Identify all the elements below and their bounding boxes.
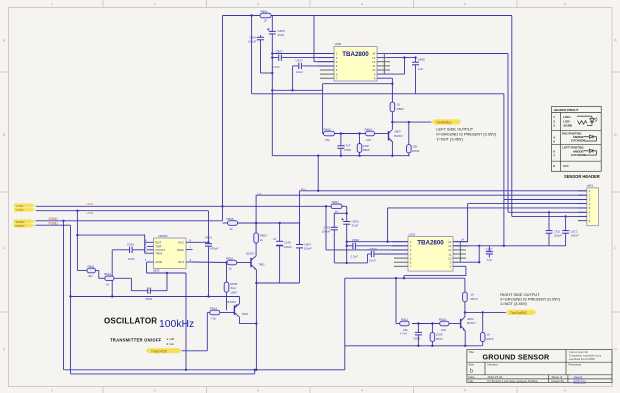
wire C818 row: [131, 290, 147, 292]
wire C813 column: [208, 242, 210, 243]
svg-text:NE555: NE555: [158, 234, 168, 238]
capacitor C815: [130, 247, 133, 253]
wire PGND rail: [36, 224, 71, 226]
resistor R810 inline on OUT: [226, 256, 237, 270]
svg-text:u802: u802: [409, 232, 416, 236]
pins U800 5-7 ground stubs: [320, 70, 334, 78]
svg-text:Lrt-: Lrt-: [258, 192, 263, 196]
svg-text:7.5k: 7.5k: [210, 317, 216, 321]
svg-text:1k: 1k: [229, 267, 233, 271]
svg-text:2: 2: [154, 388, 156, 392]
port PGND yellow flag: [14, 224, 36, 228]
wire bus1 drop to caps: [299, 191, 301, 245]
net label TxIsByOnL (yellow pill): [432, 119, 462, 124]
svg-text:4: 4: [361, 388, 363, 392]
svg-text:R802: R802: [397, 107, 405, 111]
svg-text:C819: C819: [370, 247, 378, 251]
svg-text:u800: u800: [335, 42, 342, 46]
pins U800 right: [377, 54, 405, 79]
svg-text:R810: R810: [226, 256, 234, 260]
svg-text:0 =on: 0 =on: [167, 342, 175, 346]
pins U802 right gnd stubs: [453, 242, 466, 263]
wire T801 emitter down: [255, 270, 257, 370]
wire R805 row: [223, 222, 228, 224]
wire header pin6 net: [507, 54, 509, 213]
wire C1401 column: [279, 223, 281, 241]
svg-text:autodised levone.BMP: autodised levone.BMP: [569, 357, 595, 361]
svg-text:100uF: 100uF: [248, 40, 257, 44]
pins U802 left: [392, 242, 408, 254]
svg-text:3: 3: [257, 388, 259, 392]
capacitor C817b: [486, 252, 493, 254]
wire chip2 pin2 net through C810: [347, 245, 353, 247]
wire output node right: [465, 311, 506, 313]
wire top row right block: [345, 277, 465, 279]
svg-text:C: C: [3, 246, 6, 250]
svg-text:Lrt+: Lrt+: [301, 187, 307, 191]
wire T802 emitter up: [239, 297, 241, 304]
resistor R804: [365, 127, 375, 141]
transistor Q801 BC817: [389, 130, 393, 142]
capacitor C819 series pin4: [371, 251, 374, 257]
svg-text:470pF: 470pF: [210, 247, 219, 251]
svg-text:HEADER PINOUT: HEADER PINOUT: [554, 108, 579, 112]
svg-text:andy irvin: andy irvin: [574, 379, 587, 383]
wire bus2 drop to oscillator: [255, 195, 257, 233]
svg-text:R804: R804: [365, 127, 373, 131]
svg-text:2: 2: [154, 2, 156, 6]
svg-text:DISC: DISC: [177, 248, 185, 252]
svg-text:R805: R805: [363, 148, 370, 152]
svg-text:1: 1: [51, 2, 53, 6]
svg-text:GND: GND: [155, 260, 163, 264]
svg-text:OUT: OUT: [178, 260, 185, 264]
svg-text:R809: R809: [260, 234, 268, 238]
pins U801: [578, 191, 587, 217]
wire C811 hang: [548, 212, 550, 230]
resistor R816b: [439, 317, 449, 331]
wire R815 column from output node: [482, 312, 484, 332]
pins U802 right: [453, 242, 468, 267]
wire C810b column: [299, 223, 301, 244]
wire ground line A: [272, 89, 322, 91]
wire bottom row right block: [345, 345, 483, 347]
svg-text:Cannot open file: Cannot open file: [569, 350, 588, 354]
svg-text:5: 5: [464, 2, 466, 6]
wire bottom rail 1: [64, 369, 345, 371]
svg-text:1 =off: 1 =off: [167, 337, 175, 341]
svg-text:1k: 1k: [106, 283, 110, 287]
wire VCC from +7Vp: [193, 241, 209, 243]
resistor R805b inline: [227, 217, 238, 231]
wire OUT to base: [193, 261, 227, 264]
resistor R802: [390, 102, 404, 112]
svg-text:TBA2800: TBA2800: [342, 51, 369, 58]
transistor Q802 BC817: [461, 317, 466, 331]
capacitor C819b: [415, 332, 422, 335]
pin numbers U801: [589, 189, 591, 223]
capacitor C810b: [296, 245, 303, 248]
wire chip1 pin1 net: [272, 53, 334, 55]
capacitor C809: [337, 146, 344, 149]
svg-text:C810: C810: [352, 238, 360, 242]
pin numbers U800: [336, 52, 338, 81]
annotation RIGHT SIDE OUTPUT: [500, 292, 560, 306]
wire chip1 pin13-pin9 tie: [404, 58, 406, 75]
wire RST/THR/CVOLT/TRIG tie: [145, 241, 147, 243]
transistor T801 BC817: [251, 256, 256, 270]
svg-text:Drawn By:: Drawn By:: [552, 379, 566, 383]
svg-text:SGND: SGND: [49, 217, 59, 221]
svg-text:10: 10: [335, 209, 339, 213]
junction dots right block: [254, 205, 505, 371]
svg-text:6: 6: [564, 2, 566, 6]
svg-text:1K: 1K: [397, 102, 401, 106]
wire emitter down: [391, 142, 393, 156]
capacitor C1401 polarized: [274, 239, 284, 246]
wire SGND down: [63, 221, 65, 370]
svg-text:100K: 100K: [230, 290, 237, 294]
wire bus line Lrt+ to header pin1: [300, 190, 587, 192]
svg-text:u805: u805: [153, 269, 160, 273]
svg-text:u801: u801: [587, 184, 594, 188]
svg-text:220uF: 220uF: [284, 245, 292, 249]
resistor R806: [407, 145, 420, 153]
annotation LEFT SIDE OUTPUT: [436, 126, 496, 141]
svg-text:C813: C813: [205, 236, 213, 240]
svg-text:C818: C818: [145, 297, 153, 301]
photodiode symbol LEFT: [584, 149, 597, 155]
svg-text:Number: Number: [488, 363, 498, 367]
svg-text:R817: R817: [436, 337, 443, 341]
wire emitter down: [464, 331, 466, 346]
wire R802 pull branch: [391, 84, 393, 102]
wire R807 feed: [342, 205, 347, 207]
wire R806 column from output node: [408, 122, 410, 145]
resistor R809: [254, 233, 267, 243]
junction dots oscillator: [62, 205, 280, 371]
svg-text:TxIsRdByL: TxIsRdByL: [436, 121, 452, 125]
svg-text:C815: C815: [127, 243, 135, 247]
wire ground row 296.5: [71, 296, 240, 298]
svg-text:+7Vp: +7Vp: [86, 211, 94, 215]
resistor R801: [260, 10, 271, 23]
svg-text:C: C: [614, 246, 617, 250]
svg-text:T801: T801: [258, 262, 265, 266]
svg-text:R816: R816: [439, 317, 447, 321]
wire chip2 pin1 net: [347, 241, 408, 243]
capacitor C813: [205, 244, 212, 247]
svg-text:BC817: BC817: [394, 134, 403, 138]
wire chip1 pin3 from rail: [313, 16, 315, 62]
wire C805 column: [271, 16, 273, 32]
wire +7Vs rail: [36, 205, 331, 207]
svg-text:15k: 15k: [325, 138, 330, 142]
wire bus line Lrt- to header pin2: [256, 194, 587, 196]
svg-text:CATHODE: CATHODE: [571, 139, 586, 143]
svg-text:BC817: BC817: [246, 252, 255, 256]
connector U801 sensor header: [587, 184, 599, 226]
svg-text:6: 6: [564, 388, 566, 392]
svg-text:R801: R801: [261, 10, 269, 14]
wire C817 hang: [488, 246, 490, 252]
svg-text:N.C.: N.C.: [563, 164, 569, 168]
wire pin3 feed from +7Vs: [325, 206, 327, 250]
svg-text:2.2nF: 2.2nF: [272, 65, 280, 69]
resistor R811: [87, 265, 96, 279]
svg-text:C808: C808: [418, 57, 426, 61]
wire R805 hang: [359, 134, 361, 144]
capacitor C803 polarized: [341, 218, 350, 224]
wire left output node: [392, 121, 431, 123]
wire chip1 pin14 output to header: [392, 53, 508, 55]
wire gnd row chip2: [334, 262, 367, 264]
port +7Vp yellow flag: [14, 208, 36, 212]
svg-text:R807: R807: [332, 200, 340, 204]
svg-text:Title: Title: [469, 350, 475, 354]
svg-text:14: 14: [461, 237, 465, 241]
svg-text:1=NOT (3.45V): 1=NOT (3.45V): [436, 137, 463, 142]
svg-text:100nF: 100nF: [304, 247, 312, 251]
svg-text:4: 4: [361, 2, 363, 6]
svg-text:OSCILLATOR: OSCILLATOR: [104, 317, 157, 326]
svg-text:CATHODE: CATHODE: [571, 153, 586, 157]
svg-text:100kHz: 100kHz: [159, 319, 194, 330]
capacitor C811: [546, 231, 553, 234]
wire R814 row: [207, 312, 210, 314]
svg-text:1k8: 1k8: [441, 328, 446, 332]
junction dots top section: [250, 14, 416, 157]
port SGND yellow flag: [14, 219, 36, 223]
wire base row right block: [396, 323, 402, 325]
pins U805: [147, 242, 193, 262]
wire C812 hang: [565, 216, 567, 230]
svg-text:R805: R805: [227, 217, 235, 221]
svg-text:T802: T802: [242, 312, 249, 316]
pin names U805: [155, 241, 165, 265]
wire chip2 pin8 route: [465, 266, 467, 275]
wire C803 column: [346, 225, 348, 263]
svg-text:2.2nF: 2.2nF: [350, 255, 358, 259]
wires around U805: [71, 211, 301, 370]
svg-text:C819: C819: [413, 336, 420, 340]
resistor R805: [357, 144, 370, 153]
svg-text:10nF: 10nF: [369, 258, 376, 262]
svg-text:R803: R803: [324, 127, 332, 131]
svg-text:C807: C807: [276, 50, 284, 54]
transistor T802 BC807: [234, 304, 239, 318]
wire chip1 pin13 to C808: [392, 57, 416, 59]
svg-text:SENSOR HEADER: SENSOR HEADER: [564, 174, 600, 179]
svg-text:1nF: 1nF: [418, 67, 423, 71]
svg-text:D: D: [3, 348, 6, 352]
svg-text:b: b: [470, 369, 473, 375]
resistor R815: [480, 332, 493, 341]
svg-text:10nF: 10nF: [128, 257, 135, 261]
svg-text:100uF: 100uF: [322, 230, 331, 234]
svg-text:BC817: BC817: [467, 321, 476, 325]
net label TxIsOutRtG yellow pill: [506, 310, 537, 315]
resistor R811: [400, 317, 410, 331]
wire header pin7 net: [511, 16, 513, 217]
wire R809 column: [255, 223, 257, 233]
wire top power rail: [223, 15, 261, 17]
svg-text:1=NOT (3.45V): 1=NOT (3.45V): [500, 301, 527, 306]
resistor R808: [224, 282, 237, 294]
resistor R812: [104, 272, 114, 286]
svg-text:33uF: 33uF: [352, 224, 359, 228]
svg-text:1uF: 1uF: [487, 258, 492, 262]
wire T802 collector link: [239, 317, 241, 323]
svg-text:+7Vs: +7Vs: [86, 202, 94, 206]
svg-text:SGND: SGND: [563, 124, 573, 128]
svg-text:R806: R806: [412, 149, 419, 153]
svg-text:C817: C817: [486, 247, 494, 251]
svg-text:TxIsOutRtG: TxIsOutRtG: [510, 311, 527, 315]
svg-text:VCC: VCC: [178, 241, 185, 245]
pin 8 NC stub: [578, 220, 587, 222]
wire output drop to bus: [317, 156, 319, 191]
wire vertical into filter: [251, 16, 253, 94]
junction dots bus: [317, 190, 567, 218]
wire C815 feed column: [111, 250, 113, 297]
svg-text:D:\Temp\2.1 coil relay replaye: D:\Temp\2.1 coil relay replayen 5ch2ba: [488, 379, 538, 383]
wire chip1 pin8 route: [391, 78, 393, 84]
resistor R807: [331, 200, 342, 213]
svg-text:PGND: PGND: [49, 221, 59, 225]
wire chip2 pin13 long ground net: [453, 245, 566, 247]
wire chip2 pin14: [453, 241, 468, 243]
wire chip1 pin4 (through C817): [293, 65, 299, 67]
capacitor C805: [267, 28, 276, 34]
timer U805 NE555: [153, 234, 186, 273]
capacitor C818: [148, 288, 151, 294]
svg-text:Size: Size: [469, 363, 475, 367]
wire pill TxByOnOff link: [182, 350, 208, 352]
photodiode symbol RIG: [584, 135, 597, 141]
wire +7Vp branch to RST: [76, 211, 78, 271]
capacitor C806 series pin2: [279, 55, 282, 61]
svg-text:TxByOnOff: TxByOnOff: [151, 349, 167, 353]
wire right block left edge: [344, 278, 346, 370]
wire C815 link: [112, 249, 129, 251]
wire chip1 pin2 net (through C806): [272, 57, 278, 59]
svg-text:1: 1: [51, 388, 53, 392]
pins U802 5-7 ground stubs: [394, 258, 408, 266]
svg-text:3k2: 3k2: [88, 274, 93, 278]
svg-text:100nF: 100nF: [570, 234, 578, 238]
wire C809 hang: [340, 134, 342, 146]
svg-text:Revisions: Revisions: [569, 363, 582, 367]
svg-text:1k: 1k: [260, 238, 264, 242]
svg-text:D: D: [614, 348, 617, 352]
resistor R803: [324, 127, 335, 141]
wire C804 column: [260, 35, 262, 37]
pins U800 left: [318, 54, 334, 66]
wire left long spine: [222, 16, 224, 221]
svg-text:R812: R812: [104, 272, 112, 276]
wire GND drop: [146, 262, 148, 273]
wire pin9 tie: [468, 261, 479, 263]
svg-text:R811: R811: [401, 317, 408, 321]
svg-text:5: 5: [464, 388, 466, 392]
svg-text:R815: R815: [486, 337, 493, 341]
wire R811 row: [77, 270, 87, 272]
svg-text:LED+: LED+: [563, 115, 571, 119]
pin numbers U805: [145, 238, 192, 262]
capacitor C817 series pin4: [299, 63, 302, 69]
svg-text:1K: 1K: [470, 292, 474, 296]
svg-text:TRIG: TRIG: [155, 251, 163, 255]
capacitor C810 series pin2: [353, 243, 356, 249]
wire header pin3 net: [503, 94, 505, 246]
pins U800 right gnd stubs: [377, 54, 390, 75]
wire R817 hang: [431, 324, 433, 333]
svg-text:1k: 1k: [230, 227, 234, 231]
wire SGND rail: [36, 220, 223, 222]
svg-text:4.7nF: 4.7nF: [343, 143, 351, 147]
svg-text:10nF: 10nF: [296, 70, 303, 74]
wire bottom rail 2: [71, 373, 255, 375]
resistor R817: [430, 332, 443, 341]
port TxByOnOff yellow pill: [146, 348, 182, 353]
LED symbol in table: [577, 116, 598, 125]
blue links in title block: [574, 375, 587, 383]
capacitor C804: [257, 37, 264, 40]
resistor R814: [210, 306, 220, 320]
svg-text:10: 10: [264, 19, 268, 23]
svg-text:GROUND SENSOR: GROUND SENSOR: [483, 352, 551, 361]
svg-text:3: 3: [257, 2, 259, 6]
wire gnd row 283: [256, 282, 299, 284]
svg-text:R811: R811: [88, 265, 95, 269]
svg-text:33uF: 33uF: [278, 33, 285, 37]
wire bottom row left block: [272, 155, 410, 157]
wire ground line B: [252, 93, 504, 95]
svg-text:+7Vp: +7Vp: [16, 208, 24, 212]
op-amp U800 TBA2800: [334, 42, 377, 81]
wire base row left block: [322, 133, 325, 135]
svg-text:C809: C809: [344, 148, 351, 152]
wire C802 branch: [334, 212, 346, 214]
svg-text:4.7nF: 4.7nF: [400, 331, 408, 335]
svg-text:1k8: 1k8: [366, 138, 371, 142]
svg-text:C817: C817: [296, 58, 304, 62]
svg-text:PGND: PGND: [16, 224, 26, 228]
port +7Vs yellow flag: [14, 204, 36, 208]
capacitor C812: [562, 231, 569, 234]
wire chip2 pin4 net through C819: [368, 253, 371, 255]
capacitor C802: [331, 227, 338, 230]
svg-text:File: File: [469, 379, 474, 383]
wire +7Vp rail: [36, 210, 209, 212]
wire header pin5 net: [388, 207, 587, 209]
svg-text:TBA2800: TBA2800: [417, 239, 444, 246]
wire R808 column: [226, 263, 228, 283]
resistor R813: [463, 292, 478, 302]
note text top right of title block: [569, 350, 602, 361]
svg-text:R813: R813: [470, 297, 478, 301]
op-amp U802 TBA2800: [408, 232, 453, 271]
svg-text:100uF: 100uF: [554, 234, 562, 238]
wire R813 column: [464, 278, 466, 292]
wire R812 row: [99, 277, 105, 279]
svg-text:R814: R814: [210, 306, 218, 310]
pin numbers U802: [410, 240, 412, 269]
wire C819b hang: [417, 324, 419, 333]
capacitor C808: [412, 62, 419, 65]
svg-text:BC807: BC807: [227, 300, 236, 304]
